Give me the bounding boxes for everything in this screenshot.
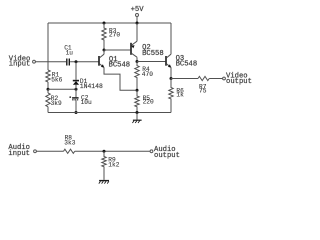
wire Q2 collector to Q3 base bbox=[137, 61, 165, 63]
svg-text:output: output bbox=[226, 78, 252, 86]
wire Q2 emitter to +5V rail bbox=[136, 23, 138, 41]
svg-text:output: output bbox=[154, 152, 180, 160]
capacitor C1 bbox=[67, 59, 70, 66]
junction dot R4/R5/Q1 emitter bbox=[136, 89, 139, 92]
svg-text:220: 220 bbox=[143, 99, 154, 106]
junction dot C1/D1 bbox=[75, 60, 78, 63]
svg-text:5k6: 5k6 bbox=[51, 76, 62, 83]
wire D1 to junction bbox=[75, 84, 77, 89]
svg-text:BC558: BC558 bbox=[142, 50, 164, 58]
wire R3 junction to Q1 collector bbox=[103, 50, 105, 54]
wire junction row bbox=[48, 88, 76, 90]
wire junction to R2 bbox=[47, 89, 49, 93]
junction dot rail/R3 bbox=[103, 22, 106, 25]
resistor R1 bbox=[46, 70, 50, 82]
junction dot R1/R2 bbox=[47, 88, 50, 91]
resistor R2 bbox=[46, 93, 50, 107]
svg-text:75: 75 bbox=[199, 88, 207, 95]
transistor Q2 bbox=[130, 43, 132, 55]
wire Q2 base bbox=[104, 49, 130, 51]
terminal audio output bbox=[150, 150, 153, 153]
svg-text:3k9: 3k9 bbox=[51, 100, 62, 107]
resistor R9 bbox=[102, 151, 106, 180]
junction dot D1/C2 bbox=[75, 88, 78, 91]
junction dot C2/rail bbox=[75, 111, 78, 114]
junction dot R3/Q2 base bbox=[103, 49, 106, 52]
svg-text:input: input bbox=[9, 60, 31, 68]
wire R8 to audio output bbox=[75, 150, 150, 152]
terminal video output bbox=[223, 77, 226, 80]
wire C2 top bbox=[75, 89, 77, 97]
ground (audio) bbox=[99, 180, 109, 182]
ground (main rail) bbox=[136, 113, 138, 120]
wire C1 to Q1 base bbox=[70, 61, 98, 63]
svg-text:1N4148: 1N4148 bbox=[80, 83, 103, 90]
diode D1 bbox=[73, 80, 79, 82]
wire top rail bbox=[48, 22, 171, 24]
wire bottom rail bbox=[48, 112, 171, 114]
terminal +5V bbox=[136, 14, 139, 17]
junction dot Q2 collector bbox=[136, 60, 139, 63]
wire +5V to rail bbox=[136, 17, 138, 23]
junction dot R5/ground bbox=[136, 111, 139, 114]
resistor R5 bbox=[135, 90, 139, 112]
svg-text:270: 270 bbox=[109, 32, 120, 39]
svg-text:input: input bbox=[8, 150, 30, 158]
wire video input to C1 bbox=[36, 61, 67, 63]
transistor Q3 bbox=[165, 56, 167, 66]
resistor R7 bbox=[198, 76, 209, 80]
capacitor C2 bbox=[72, 97, 79, 99]
svg-text:+5V: +5V bbox=[131, 6, 145, 14]
resistor R6 bbox=[169, 79, 173, 113]
wire C2 to bottom rail bbox=[75, 100, 77, 112]
wire R7 to terminal bbox=[209, 78, 222, 80]
terminal video input bbox=[33, 60, 36, 63]
wire Q2 collector down bbox=[136, 57, 138, 61]
transistor Q1 bbox=[98, 56, 100, 66]
resistor R8 bbox=[64, 149, 75, 153]
wire Q3 emitter down bbox=[170, 67, 172, 78]
wire audio input to R8 bbox=[37, 150, 64, 152]
junction dot rail/+5V bbox=[136, 22, 139, 25]
svg-text:1u: 1u bbox=[66, 50, 74, 57]
resistor R3 bbox=[102, 23, 106, 50]
resistor R4 bbox=[135, 62, 139, 91]
svg-text:3k3: 3k3 bbox=[64, 139, 75, 146]
junction dot R9 bbox=[103, 150, 106, 153]
wire left rail upper bbox=[47, 23, 49, 70]
terminal audio input bbox=[34, 150, 37, 153]
svg-text:470: 470 bbox=[142, 71, 153, 78]
wire R1 to junction bbox=[47, 82, 49, 89]
svg-text:1k2: 1k2 bbox=[108, 162, 119, 169]
wire Q1 emitter to R4/R5 junction bbox=[104, 67, 135, 90]
svg-text:BC548: BC548 bbox=[109, 62, 131, 70]
wire D1 top bbox=[75, 62, 77, 80]
svg-text:BC548: BC548 bbox=[176, 61, 198, 69]
svg-text:10u: 10u bbox=[81, 99, 92, 106]
wire Q3 collector to top rail bbox=[170, 23, 172, 54]
wire R2 to bottom rail bbox=[47, 107, 49, 113]
svg-text:1k: 1k bbox=[176, 92, 184, 99]
wire video output bbox=[171, 78, 198, 80]
junction dot Q3 emitter bbox=[170, 77, 173, 80]
